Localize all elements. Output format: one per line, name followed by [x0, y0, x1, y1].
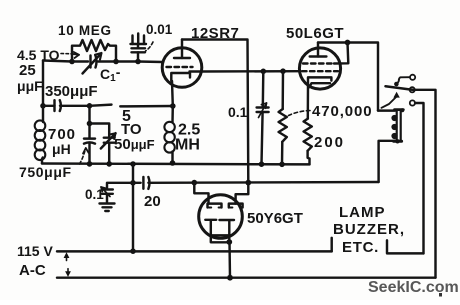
- svg-text:ETC.: ETC.: [342, 239, 379, 256]
- node heater exit: [226, 239, 232, 245]
- switch armature knot: [394, 82, 399, 87]
- svg-text:0.1: 0.1: [228, 104, 248, 120]
- tube 50L6GT screen grid (dashed): [303, 62, 334, 64]
- svg-text:350μμF: 350μμF: [45, 83, 98, 100]
- node 115V line: [130, 248, 136, 254]
- resistor 200: [304, 119, 312, 151]
- node trimmer bottom: [106, 161, 112, 167]
- trimmer capacitor 5-50uuF: [90, 124, 110, 138]
- leader dashed arrow from 4.5 TO label: [61, 53, 72, 55]
- node choke bottom: [170, 160, 176, 166]
- ground symbol: [100, 202, 115, 204]
- svg-text:25: 25: [19, 62, 36, 79]
- ground inverted above 0.01: [131, 43, 147, 45]
- svg-text:50L6GT: 50L6GT: [286, 25, 344, 42]
- svg-text:50Y6GT: 50Y6GT: [247, 210, 303, 227]
- node 750 bottom: [87, 161, 93, 167]
- tube 50Y6GT left cathode: [205, 220, 216, 236]
- svg-text:115 V: 115 V: [17, 243, 53, 259]
- tube 50L6GT envelope: [299, 48, 340, 89]
- capacitor 750uuF: [88, 106, 90, 124]
- leader curl from 0.01 label: [146, 42, 154, 51]
- arrow 115V plug: [64, 252, 70, 258]
- capacitor 0.1 to ground: [107, 183, 133, 190]
- tube 12SR7 envelope: [162, 48, 202, 88]
- wire tank top line: coil to 350 cap: [43, 105, 55, 107]
- wire 115V line: [57, 250, 332, 252]
- node plate/screen junction: [345, 40, 351, 46]
- resistor R 10 MEG loop: [72, 40, 116, 62]
- wire loop bottom left: [72, 60, 88, 62]
- tube 50L6GT heater: [309, 83, 330, 87]
- bracket lamp right: [387, 240, 424, 253]
- relay coil: [378, 109, 395, 111]
- switch armature arrow: [393, 92, 399, 98]
- tube 50Y6GT envelope: [199, 195, 243, 239]
- tube 50Y6GT right plate lead: [236, 183, 249, 204]
- node 750 top: [87, 103, 93, 109]
- svg-text:0.01: 0.01: [146, 22, 173, 37]
- svg-text:BUZZER,: BUZZER,: [333, 221, 405, 238]
- svg-text:4.5 TO: 4.5 TO: [17, 47, 60, 63]
- tube 50L6GT control grid (dashed): [302, 70, 338, 72]
- node 470k bottom: [279, 162, 285, 168]
- node loop left: [69, 59, 75, 65]
- node 50Y6 left plate: [192, 180, 198, 186]
- inductor 700uH antenna coil: [42, 108, 44, 122]
- wire to 12SR7 grid: [138, 60, 163, 63]
- wire line B with 20 cap: [133, 182, 141, 184]
- node 0.1 mid bottom: [259, 161, 265, 167]
- svg-text:20: 20: [144, 193, 161, 210]
- leader dashed 470,000: [289, 111, 311, 116]
- node 12SR7 plate / 50Y6 right plate: [245, 180, 251, 186]
- tube 50Y6GT right cathode: [220, 220, 235, 242]
- capacitor 0.1 mid: [262, 71, 265, 107]
- wire tank top line with gap: [90, 105, 112, 106]
- node AC filament: [227, 275, 233, 281]
- variable capacitor C1: [89, 56, 91, 68]
- svg-text:0.1: 0.1: [85, 187, 104, 202]
- switch top contact: [410, 75, 415, 80]
- tube 50L6GT cathode: [308, 77, 331, 85]
- wire loop bottom right: [98, 60, 138, 62]
- tube 12SR7 grid (dashed): [167, 66, 193, 68]
- wire A-C line: [57, 276, 436, 278]
- capacitor 0.01: [135, 59, 141, 65]
- wire left drop to coil: [42, 61, 44, 106]
- wire 50L6 plate line: [318, 43, 378, 111]
- svg-text:50μμF: 50μμF: [114, 136, 155, 153]
- node x133 top: [130, 161, 136, 167]
- tube 12SR7 cathode: [171, 73, 190, 81]
- resistor 470,000: [281, 71, 284, 109]
- svg-text:MH: MH: [175, 137, 200, 154]
- wire screen tie: [334, 43, 348, 64]
- wire vertical x=133: [132, 164, 134, 251]
- tube 12SR7 plate: [174, 57, 190, 59]
- wire 12SR7 plate line to the right and down: [182, 40, 248, 183]
- wire middle contact to AC line: [415, 90, 436, 278]
- switch arm: [386, 86, 415, 90]
- capacitor 20: [142, 177, 144, 189]
- bracket lamp left: [330, 238, 332, 252]
- node 470k top: [280, 68, 286, 74]
- arrow A-C plug: [65, 271, 71, 277]
- watermark tick: [439, 293, 442, 297]
- wire main grid line left segment: [43, 61, 72, 62]
- tube 50L6GT plate: [310, 55, 327, 57]
- svg-text:μμF: μμF: [17, 78, 43, 94]
- node loop right: [113, 59, 119, 65]
- svg-text:12SR7: 12SR7: [191, 25, 239, 42]
- wire coil bottom to line B: [379, 141, 396, 182]
- wire 12SR7 cathode down to tank: [171, 81, 174, 106]
- tube 50Y6GT left plate: [208, 204, 222, 208]
- tube 50Y6GT heater: [211, 235, 229, 242]
- node coil-top junction: [40, 103, 46, 109]
- tube 50Y6GT right plate: [229, 204, 243, 208]
- tube 50Y6GT left plate lead: [194, 183, 208, 204]
- switch bottom contact: [410, 100, 415, 105]
- switch middle contact: [410, 87, 415, 92]
- wire 50Y6 filament down to AC line: [228, 242, 231, 277]
- svg-text:SeekIC.com: SeekIC.com: [368, 279, 459, 296]
- wire cathode-grid line y=71: [201, 70, 300, 73]
- svg-text:200: 200: [314, 134, 345, 151]
- svg-text:470,000: 470,000: [312, 103, 373, 120]
- svg-text:10 MEG: 10 MEG: [58, 23, 112, 38]
- svg-text:A-C: A-C: [19, 262, 46, 279]
- svg-text:μH: μH: [52, 141, 71, 157]
- node choke top / cathode junction: [170, 103, 176, 109]
- leader dashed 750uuF: [80, 151, 86, 165]
- capacitor 350uuF: [53, 100, 55, 111]
- svg-text:LAMP: LAMP: [339, 204, 386, 221]
- wire line A (tank bottom rail): [42, 162, 310, 165]
- node 0.1 mid top: [261, 69, 267, 75]
- node line B x133: [130, 180, 136, 186]
- wire 50L6 cathode down to 200 ohm: [307, 85, 310, 118]
- wire bottom contact to lamp bracket: [415, 103, 424, 253]
- choke 2.5MH: [171, 106, 174, 122]
- svg-text:750μμF: 750μμF: [19, 164, 72, 180]
